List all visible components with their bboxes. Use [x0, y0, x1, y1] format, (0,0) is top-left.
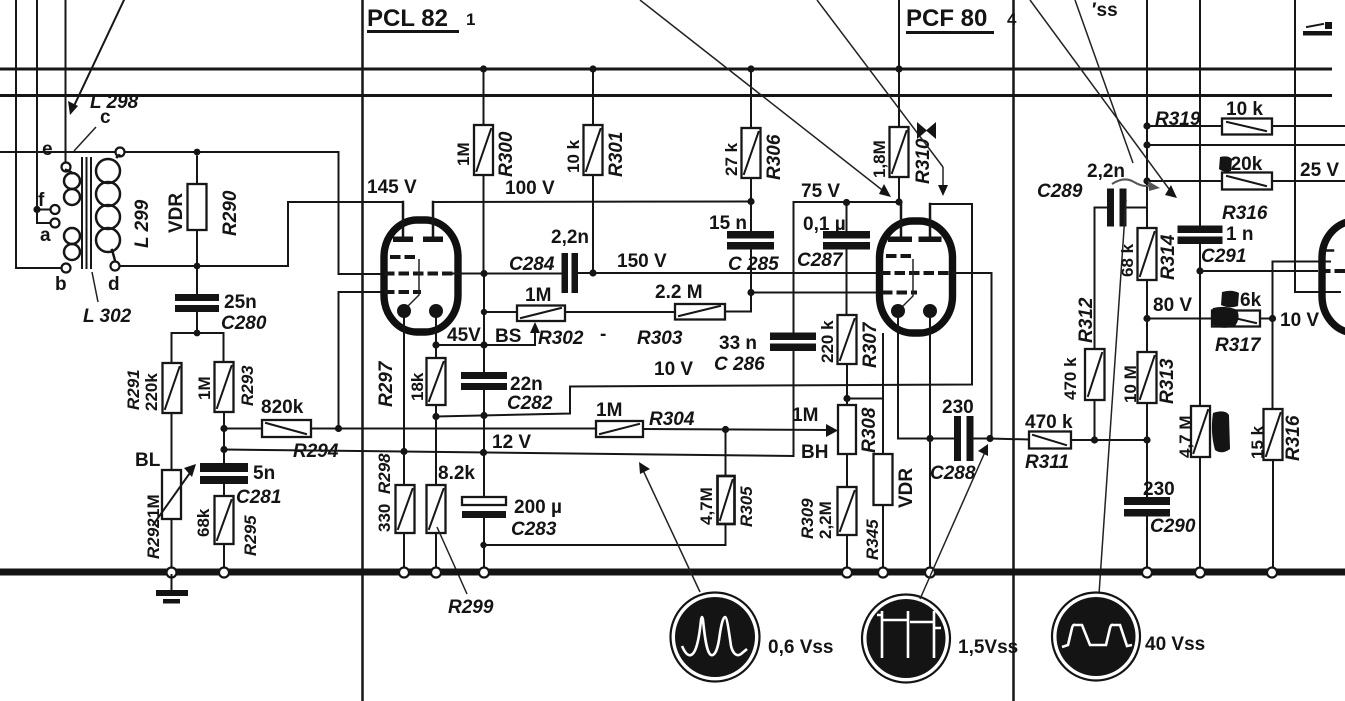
wire to right tube grid: [1200, 270, 1317, 272]
bus terminal cathode: [925, 568, 935, 578]
svg-text:150 V: 150 V: [617, 251, 667, 272]
svg-text:68k: 68k: [194, 508, 213, 537]
terminal c: [116, 148, 125, 157]
node VDR bottom: [194, 263, 201, 270]
correction blob R317: [1211, 307, 1239, 328]
wire down to R299: [435, 417, 437, 486]
svg-text:15 k: 15 k: [1248, 425, 1267, 459]
wire up to PCL82 grid 3: [339, 292, 385, 429]
svg-text:330: 330: [375, 504, 394, 532]
resistor R304: [596, 421, 643, 437]
capacitor C281: [200, 463, 248, 496]
wire vertical feed left 2: [36, 0, 38, 210]
resistor R302: [517, 306, 565, 322]
node C282 bottom: [480, 412, 487, 419]
node 12V at cathode line: [400, 448, 407, 455]
node R310 bottom: [895, 198, 902, 205]
resistor R313: [1138, 319, 1157, 441]
wire cathode1 down to R298: [403, 316, 405, 485]
bus terminal R299: [431, 568, 441, 578]
wire c to VDR top: [125, 151, 339, 153]
node C285 bottom: [747, 289, 754, 296]
svg-text:27 k: 27 k: [722, 142, 741, 176]
annotation arrow to L298: [68, 0, 124, 115]
svg-text:PCF 80: PCF 80: [906, 5, 987, 32]
wire PCL82 anode2 to C285 node: [433, 201, 751, 204]
wire cathode1 down: [898, 316, 930, 439]
node grid2 wire at R300: [480, 270, 487, 277]
svg-text:R306: R306: [764, 134, 785, 180]
svg-text:C291: C291: [1201, 246, 1246, 267]
svg-text:PCL 82: PCL 82: [367, 5, 448, 32]
svg-text:4: 4: [1007, 10, 1017, 29]
svg-text:6k: 6k: [1240, 290, 1262, 311]
svg-text:R305: R305: [737, 486, 756, 527]
annotation line to 40Vss: [1099, 200, 1126, 594]
svg-text:a: a: [40, 225, 51, 246]
node R319 wire: [1143, 122, 1150, 129]
svg-text:c: c: [100, 107, 111, 128]
node 12V at C283: [480, 449, 487, 456]
label 15k blob: [1221, 290, 1262, 311]
wire to R294: [224, 428, 262, 430]
svg-text:820k: 820k: [261, 397, 304, 418]
wire C282 node down to C283: [483, 417, 485, 498]
svg-text:R299: R299: [448, 597, 494, 618]
ground bus: [0, 569, 1345, 576]
wire f to bus: [37, 209, 51, 211]
svg-text:VDR: VDR: [166, 193, 187, 233]
terminal e: [62, 163, 71, 172]
svg-text:1M: 1M: [525, 285, 551, 306]
wire to R311: [990, 439, 1029, 440]
inductor L299 winding: [96, 155, 120, 261]
wire stub down to R345: [882, 399, 884, 455]
wire R293 bottom: [223, 412, 225, 463]
wire R297 node to 10V corner: [436, 387, 570, 417]
svg-text:10 V: 10 V: [1280, 310, 1319, 331]
ground symbol: [156, 575, 188, 604]
wire 75V node row: [794, 202, 902, 333]
svg-text:200 µ: 200 µ: [514, 497, 562, 518]
capacitor C282: [461, 345, 507, 417]
PCL82 anode 2: [423, 202, 443, 242]
node f junction: [33, 206, 40, 213]
svg-text:470 k: 470 k: [1025, 412, 1073, 433]
svg-text:220 k: 220 k: [818, 320, 837, 363]
svg-text:C 285: C 285: [728, 254, 779, 275]
resistor R309: [838, 487, 857, 568]
svg-text:25 V: 25 V: [1300, 160, 1339, 181]
PCF80 grid row 1: [886, 254, 914, 258]
annotation arrow 1,5Vss: [920, 444, 988, 599]
PCF80 anode 2: [919, 204, 942, 242]
PCF80 grid row 3: [882, 291, 917, 295]
node 45V left: [432, 341, 439, 348]
resistor R306 with feed: [742, 65, 761, 201]
wire R304 to R308 arrow: [643, 424, 838, 437]
svg-text:1 n: 1 n: [1226, 224, 1253, 245]
svg-text:R302: R302: [538, 328, 584, 349]
annotation arrow 0,6Vss: [639, 462, 700, 592]
svg-text:10 k: 10 k: [564, 139, 583, 173]
wire to 820k: [1147, 180, 1222, 182]
svg-text:10 V: 10 V: [654, 359, 693, 380]
resistor R316 820k: [1222, 173, 1272, 190]
resistor R312: [1085, 349, 1105, 440]
node R312 bottom: [1091, 436, 1098, 443]
wire cathode node to bus: [929, 439, 931, 569]
svg-text:C284: C284: [509, 254, 555, 275]
wire R303 up to C285 node: [725, 293, 751, 312]
wire jog to terminal a: [37, 210, 50, 224]
node R305 top: [722, 426, 729, 433]
tube PCF80 envelope: [880, 221, 953, 333]
wire 12V line: [224, 450, 794, 457]
node 80V: [1143, 315, 1150, 322]
svg-text:BS: BS: [495, 326, 521, 347]
svg-text:230: 230: [1143, 479, 1175, 500]
svg-text:1,8M: 1,8M: [870, 140, 889, 178]
wire 150V row: [578, 272, 877, 274]
VDR R345: [874, 454, 893, 568]
svg-text:1,5Vss: 1,5Vss: [958, 637, 1018, 658]
tube PCL82 envelope: [384, 220, 458, 332]
wire R297 bottom: [435, 405, 437, 417]
wire C283 to R305 bottom: [484, 524, 726, 545]
svg-text:R300: R300: [496, 131, 517, 177]
svg-text:1M: 1M: [144, 494, 163, 518]
pointer R299: [437, 527, 467, 594]
wire 10V rail: [570, 204, 972, 387]
svg-text:e: e: [42, 139, 53, 160]
svg-text:L 299: L 299: [132, 199, 153, 248]
node C288 out: [986, 435, 993, 442]
resistor R314: [1138, 208, 1157, 353]
terminal d: [111, 262, 120, 271]
svg-text:4,7M: 4,7M: [697, 487, 716, 525]
wire 145V feed from left edge: [0, 151, 116, 153]
bus terminal R316: [1267, 568, 1277, 578]
wire R319 right: [1272, 125, 1345, 127]
wire 80V to R317: [1147, 318, 1212, 320]
wire R304 row: [339, 428, 597, 430]
svg-text:R303: R303: [637, 328, 683, 349]
svg-text:25n: 25n: [224, 292, 257, 313]
svg-text:2,2M: 2,2M: [816, 501, 835, 539]
resistor R297: [427, 358, 446, 405]
node R301 bottom: [589, 269, 596, 276]
svg-text:1M: 1M: [195, 376, 214, 400]
resistor R319 10k: [1222, 119, 1272, 135]
PCF80 cathode dot 2: [923, 304, 937, 318]
svg-text:2.2 M: 2.2 M: [655, 282, 703, 303]
wire 45V node row: [436, 344, 535, 346]
wire C289 down to R312: [1094, 208, 1096, 350]
svg-text:1M: 1M: [454, 142, 473, 166]
svg-text:2,2n: 2,2n: [1087, 161, 1125, 182]
svg-text:R307: R307: [860, 321, 881, 368]
resistor R310 with feed: [890, 0, 909, 202]
svg-text:f: f: [38, 190, 45, 211]
wire stubs top right: [1303, 22, 1332, 36]
svg-text:R312: R312: [1076, 297, 1097, 343]
resistor R307: [838, 315, 857, 399]
wire R291 to R292: [171, 413, 173, 470]
resistor R303: [675, 304, 725, 320]
PCL82 anode 1: [393, 202, 413, 242]
node VDR top: [194, 149, 201, 156]
svg-text:R316: R316: [1283, 415, 1304, 461]
svg-text:230: 230: [942, 397, 974, 418]
svg-text:R291: R291: [124, 369, 143, 410]
wire left feed to b: [16, 267, 62, 269]
svg-text:1M: 1M: [596, 400, 622, 421]
svg-text:C 286: C 286: [714, 354, 765, 375]
wire R299 to bus: [435, 533, 437, 568]
resistor R300 with feed: [474, 65, 493, 273]
inductor L298 winding top: [64, 170, 80, 205]
terminal f: [51, 205, 60, 214]
VDR R290: [188, 157, 207, 263]
potentiometer R292 BL: [153, 464, 196, 525]
wire R317 right: [1260, 318, 1273, 320]
resistor R295: [215, 496, 234, 544]
svg-text:0,6 Vss: 0,6 Vss: [768, 637, 834, 658]
right tube grid dash: [1325, 249, 1333, 252]
PCF80 anode 1: [888, 202, 912, 242]
wire R311 right: [1071, 439, 1147, 441]
svg-text:100 V: 100 V: [505, 178, 555, 199]
svg-text:1M: 1M: [792, 405, 818, 426]
capacitor C291: [1178, 226, 1223, 407]
wire vertical feed left 3 to terminal e: [65, 0, 67, 163]
resistor R298: [396, 485, 415, 533]
svg-text:L 298: L 298: [90, 92, 139, 113]
PCF80 internal connection: [902, 259, 914, 308]
node C285 top: [747, 198, 754, 205]
pointer L298: [74, 127, 96, 151]
svg-text:C288: C288: [930, 463, 976, 484]
tube partial right: [1322, 221, 1345, 333]
bus terminal C283: [479, 568, 489, 578]
svg-text:BH: BH: [801, 442, 828, 463]
node R307 bottom: [843, 395, 850, 402]
svg-text:45V: 45V: [447, 325, 481, 346]
bus terminal R298: [399, 568, 409, 578]
resistor R311: [1029, 432, 1071, 449]
svg-text:-: -: [600, 324, 606, 345]
svg-text:d: d: [108, 274, 120, 295]
svg-text:4,7 M: 4,7 M: [1176, 415, 1195, 458]
wire R295 to bus: [223, 544, 225, 568]
capacitor C280: [175, 270, 219, 333]
wire R292 to bus: [171, 519, 173, 568]
section divider line right: [1012, 0, 1015, 701]
resistor R299: [427, 485, 446, 533]
svg-text:R316: R316: [1222, 203, 1268, 224]
wire R313 node to C290: [1146, 440, 1148, 497]
svg-text:R292: R292: [144, 518, 163, 559]
node C283 feed: [480, 542, 486, 548]
node R293/R294: [220, 425, 227, 432]
svg-text:470 k: 470 k: [1061, 357, 1080, 400]
svg-text:C290: C290: [1150, 516, 1196, 537]
dashes into right tube: [1320, 269, 1345, 273]
svg-text:C287: C287: [797, 250, 844, 271]
svg-text:10 M: 10 M: [1121, 365, 1140, 403]
wire to R302: [484, 311, 517, 313]
capacitor C286: [770, 333, 816, 457]
PCF80 grid row 2: [880, 271, 955, 275]
node R313 bottom: [1143, 436, 1150, 443]
svg-text:L 302: L 302: [83, 306, 132, 327]
svg-text:R319: R319: [1155, 109, 1201, 130]
section divider line left: [361, 0, 364, 701]
bus terminal R292: [167, 568, 177, 578]
potentiometer R308: [838, 399, 856, 488]
svg-text:33 n: 33 n: [719, 333, 757, 354]
supply rail top: [0, 68, 1332, 71]
svg-text:2,2n: 2,2n: [551, 227, 589, 248]
wire vertical feed left 1: [15, 0, 17, 268]
svg-text:C281: C281: [236, 487, 281, 508]
svg-text:18k: 18k: [408, 372, 427, 401]
node mid wire: [1143, 141, 1150, 148]
svg-text:80 V: 80 V: [1153, 295, 1192, 316]
svg-text:75 V: 75 V: [801, 181, 840, 202]
svg-text:R304: R304: [649, 409, 695, 430]
resistor R301 with feed: [584, 65, 603, 273]
transformer core: [82, 158, 91, 268]
wire right edge feed: [1295, 0, 1340, 292]
svg-text:22n: 22n: [510, 374, 543, 395]
svg-text:145 V: 145 V: [367, 177, 417, 198]
annotation squiggle arrow: [1112, 179, 1160, 191]
annotation diagonal to 75V: [640, 0, 891, 197]
wire R298 to bus: [403, 533, 405, 568]
node C291 out: [1196, 267, 1203, 274]
svg-text:5n: 5n: [253, 463, 275, 484]
svg-text:40 Vss: 40 Vss: [1145, 634, 1205, 655]
svg-text:R311: R311: [1025, 452, 1069, 473]
PCL82 grid row 2: [384, 272, 453, 276]
wire cathode2 down to 45V node: [435, 316, 437, 358]
capacitor C289: [1095, 189, 1148, 227]
node 820k wire: [1143, 177, 1150, 184]
svg-text:VDR: VDR: [896, 468, 917, 508]
capacitor C290: [1124, 497, 1170, 568]
wire node to envelope stub: [847, 334, 883, 399]
svg-text:8.2k: 8.2k: [438, 463, 475, 484]
resistor R293: [215, 362, 234, 412]
wire to PCF80 grid 3: [751, 292, 878, 294]
svg-text:10 k: 10 k: [1226, 99, 1263, 120]
annotation diagonal right 2: [1075, 0, 1133, 163]
svg-text:BL: BL: [135, 450, 161, 471]
wire R294 to node: [311, 428, 339, 430]
capacitor C288: [930, 416, 990, 461]
node R302 branch: [481, 309, 487, 315]
bus terminal R295: [219, 568, 229, 578]
terminal a: [51, 219, 60, 228]
bus terminal C290: [1142, 568, 1152, 578]
resistor R294: [262, 420, 311, 437]
annotation diagonal right 1: [1030, 0, 1177, 198]
capacitor C285: [727, 202, 774, 293]
svg-text:R313: R313: [1157, 358, 1178, 404]
wire cathode2 down: [929, 316, 931, 439]
svg-text:R310: R310: [913, 138, 934, 184]
svg-text:12 V: 12 V: [492, 432, 531, 453]
bus terminal R309: [842, 568, 852, 578]
adjust arrow BS into R302: [530, 322, 540, 345]
wire PCF80 grid2 out to C288 node: [955, 273, 992, 439]
scope waveform 40Vss: [1052, 593, 1140, 681]
pointer L302: [92, 272, 98, 302]
PCL82 grid row 1: [390, 255, 418, 259]
bus terminal 4,7M: [1195, 568, 1205, 578]
capacitor C283 electrolytic: [462, 497, 506, 568]
capacitor C284: [453, 253, 578, 293]
svg-text:0,1 µ: 0,1 µ: [803, 214, 846, 235]
PCF80 cathode dot 1: [891, 304, 905, 318]
PCL82 cathode dot 2: [429, 304, 443, 318]
svg-text:C282: C282: [507, 393, 553, 414]
resistor 4,7M column: [1191, 406, 1210, 568]
svg-text:C280: C280: [221, 313, 267, 334]
node C287 top 75V: [843, 199, 850, 206]
vertical R300 bottom / C282 / R302 branch: [483, 274, 485, 346]
svg-text:R297: R297: [376, 360, 397, 407]
node R294 right: [335, 425, 342, 432]
scope waveform 0,6Vss: [671, 593, 760, 682]
node R316 top: [1269, 315, 1276, 322]
svg-text:b: b: [55, 274, 67, 295]
resistor R316 15k: [1264, 319, 1283, 569]
svg-text:R308: R308: [859, 407, 880, 453]
title PCF 80: [906, 5, 1017, 34]
svg-text:R345: R345: [863, 519, 882, 560]
wire mid row: [1147, 144, 1345, 146]
wire split to R291 R293: [172, 333, 224, 363]
wire right column feed: [1146, 0, 1148, 208]
svg-text:R298: R298: [375, 453, 394, 494]
svg-text:R295: R295: [241, 515, 260, 556]
svg-text:C289: C289: [1037, 181, 1083, 202]
terminal b: [62, 264, 71, 273]
label 820k: [1219, 154, 1263, 175]
inductor winding bottom (L302 primary): [64, 228, 80, 260]
title PCL 82: [367, 5, 475, 33]
PCL82 cathode dot 1: [397, 304, 411, 318]
supply rail 2: [0, 94, 1332, 97]
svg-text:C283: C283: [511, 519, 557, 540]
wire long vertical right: [1199, 0, 1201, 226]
PCL82 grid row 3: [384, 290, 421, 294]
node 45V mid: [480, 341, 487, 348]
capacitor C287: [823, 203, 870, 316]
correction scribble: [1212, 411, 1230, 452]
PCL82 internal connection: [408, 259, 420, 307]
node cathode C288: [926, 435, 933, 442]
svg-text:220k: 220k: [142, 373, 161, 411]
svg-text:R290: R290: [220, 190, 241, 236]
wire down to PCL82 grid 2: [339, 152, 385, 274]
svg-text:15 n: 15 n: [709, 213, 747, 234]
svg-text:R301: R301: [606, 132, 627, 177]
svg-text:1: 1: [466, 10, 475, 29]
